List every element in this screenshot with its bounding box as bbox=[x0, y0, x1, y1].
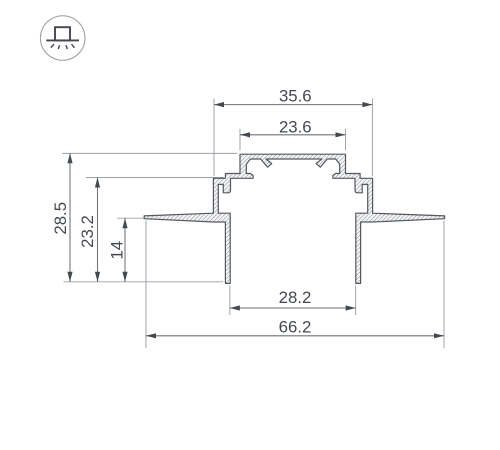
svg-text:14: 14 bbox=[107, 241, 126, 260]
svg-text:23.6: 23.6 bbox=[279, 118, 312, 137]
svg-text:66.2: 66.2 bbox=[279, 318, 312, 337]
svg-text:23.2: 23.2 bbox=[78, 215, 97, 248]
svg-text:35.6: 35.6 bbox=[279, 87, 312, 106]
svg-text:28.2: 28.2 bbox=[279, 288, 312, 307]
svg-text:28.5: 28.5 bbox=[51, 202, 70, 235]
